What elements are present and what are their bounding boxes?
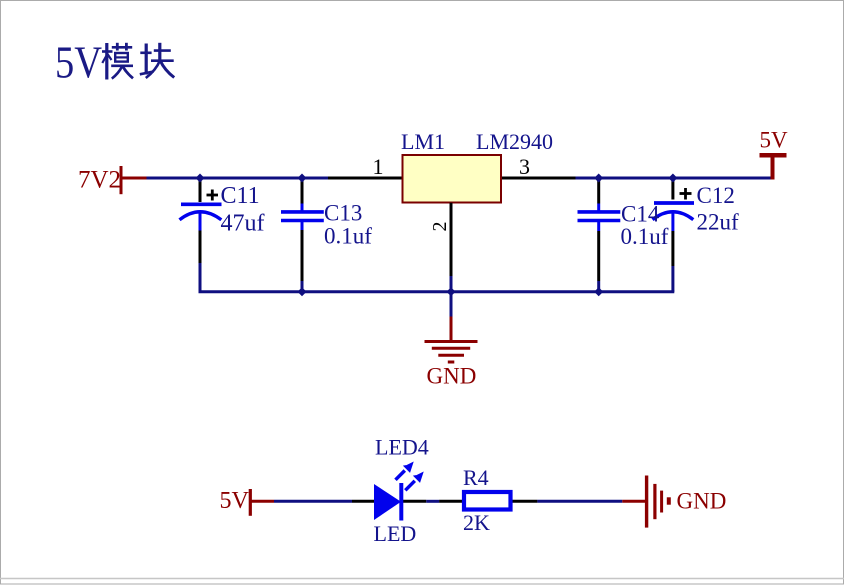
- svg-text:22uf: 22uf: [697, 210, 740, 235]
- svg-text:0.1uf: 0.1uf: [621, 224, 669, 249]
- svg-text:LM1: LM1: [401, 129, 445, 154]
- svg-text:C13: C13: [324, 201, 362, 226]
- svg-text:0.1uf: 0.1uf: [324, 224, 372, 249]
- svg-text:LED4: LED4: [375, 435, 429, 460]
- svg-text:C12: C12: [697, 183, 735, 208]
- svg-text:47uf: 47uf: [221, 211, 265, 237]
- svg-text:GND: GND: [677, 489, 727, 514]
- svg-text:5V: 5V: [55, 37, 102, 87]
- svg-text:7V2: 7V2: [78, 167, 121, 194]
- svg-text:GND: GND: [427, 364, 477, 389]
- svg-text:C11: C11: [221, 183, 260, 209]
- svg-text:R4: R4: [463, 465, 489, 490]
- svg-text:C14: C14: [621, 202, 660, 227]
- svg-text:5V: 5V: [760, 128, 789, 153]
- svg-text:LED: LED: [374, 521, 417, 546]
- svg-text:3: 3: [519, 154, 530, 179]
- svg-text:2K: 2K: [463, 510, 490, 535]
- svg-text:2: 2: [429, 222, 451, 232]
- svg-text:LM2940: LM2940: [476, 129, 553, 154]
- svg-text:5V: 5V: [220, 488, 250, 514]
- svg-text:1: 1: [373, 154, 384, 179]
